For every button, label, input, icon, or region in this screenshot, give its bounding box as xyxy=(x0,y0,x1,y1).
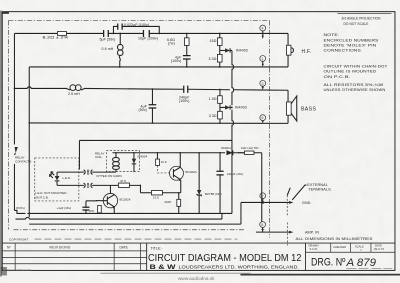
svg-text:ALL RESISTORS 5%-¼W: ALL RESISTORS 5%-¼W xyxy=(323,83,383,87)
resistor 12K xyxy=(140,191,180,200)
svg-text:47 K: 47 K xyxy=(120,179,126,183)
series capacitor 240uF xyxy=(179,86,190,104)
svg-text:OUTLINE IS MOUNTED: OUTLINE IS MOUNTED xyxy=(323,70,376,74)
wire input rail lower xyxy=(13,164,15,211)
svg-text:EXTERNAL: EXTERNAL xyxy=(307,183,328,187)
relay contacts label xyxy=(15,155,31,163)
svg-text:BASS: BASS xyxy=(301,106,317,112)
svg-text:7: 7 xyxy=(261,194,263,198)
svg-text:CIRCUIT DIAGRAM - MODEL DM 12: CIRCUIT DIAGRAM - MODEL DM 12 xyxy=(148,253,302,264)
svg-text:(100v): (100v) xyxy=(179,99,190,103)
svg-text:3.3Ω: 3.3Ω xyxy=(209,57,217,61)
svg-text:IN4003: IN4003 xyxy=(235,106,247,110)
bottom wires xyxy=(15,123,241,224)
resistor 220K xyxy=(164,193,180,214)
svg-text:100μF (16v): 100μF (16v) xyxy=(227,172,243,176)
svg-text:S.C.M.: S.C.M. xyxy=(309,247,317,251)
svg-text:10Ω (1w) 5%: 10Ω (1w) 5% xyxy=(241,146,259,150)
svg-text:L.E.D.: L.E.D. xyxy=(62,176,71,180)
svg-text:1K8: 1K8 xyxy=(88,209,94,213)
svg-text:BC182A: BC182A xyxy=(185,170,196,174)
svg-text:BC182A: BC182A xyxy=(119,197,130,201)
svg-text:CONNECTIONS.: CONNECTIONS. xyxy=(323,49,362,53)
wire input rail left vertical xyxy=(13,33,15,144)
svg-text:IN4004: IN4004 xyxy=(221,146,231,150)
resistor 47K xyxy=(118,179,140,193)
zener diode xyxy=(197,153,222,214)
svg-text:CIRCUIT WITHIN CHAIN-DOT: CIRCUIT WITHIN CHAIN-DOT xyxy=(323,65,388,69)
svg-text:(8 Pin): (8 Pin) xyxy=(16,206,25,210)
svg-text:A 879: A 879 xyxy=(345,257,376,269)
svg-text:2.5 mH: 2.5 mH xyxy=(68,92,80,96)
capacitor 10uF xyxy=(138,30,158,41)
svg-text:4: 4 xyxy=(261,27,263,31)
resistor 1K8 xyxy=(88,205,101,213)
svg-text:LOUDSPEAKERS LTD. WORTHING, EN: LOUDSPEAKERS LTD. WORTHING, ENGLAND. xyxy=(178,265,299,270)
svg-text:TITLE:-: TITLE:- xyxy=(150,246,163,250)
LED xyxy=(50,172,71,186)
HF L-pad resistor 15 ohm xyxy=(210,33,222,66)
resistor 10 ohm 1w xyxy=(241,146,259,154)
svg-text:8: 8 xyxy=(261,223,263,227)
svg-text:DO NOT SCALE: DO NOT SCALE xyxy=(343,22,369,26)
svg-text:COIL.: COIL. xyxy=(95,155,103,159)
shunt branch 6.8 ohm + 4uF xyxy=(167,33,190,66)
svg-text:(100v): (100v) xyxy=(171,59,182,63)
svg-text:www.audiodna.sk: www.audiodna.sk xyxy=(178,276,215,281)
bass speaker xyxy=(287,90,317,123)
svg-text:6: 6 xyxy=(261,116,263,120)
svg-text:DRG. Nº: DRG. Nº xyxy=(311,257,346,269)
bass sense diode IN4003 xyxy=(220,105,247,109)
svg-text:IN4004: IN4004 xyxy=(137,155,147,159)
riser to amp pin xyxy=(261,153,263,222)
LED wires with connectors xyxy=(57,170,123,188)
bass feed wire xyxy=(14,87,288,90)
relay diode IN4004 xyxy=(132,153,148,172)
svg-text:DRAWN: DRAWN xyxy=(308,244,318,248)
svg-text:12 K: 12 K xyxy=(153,195,159,199)
svg-text:NOTE.: NOTE. xyxy=(323,33,339,37)
HF pin circle top xyxy=(260,25,266,39)
external terminals leader xyxy=(292,183,332,200)
bass L-pad resistor 3.3 ohm xyxy=(209,111,222,119)
svg-text:+1μF (16v): +1μF (16v) xyxy=(56,206,71,210)
LED note text xyxy=(35,191,67,200)
svg-text:DATE: DATE xyxy=(119,245,127,249)
drawing number block xyxy=(308,244,392,269)
revisions table text xyxy=(7,245,128,249)
GND pin circle xyxy=(260,193,266,204)
HF sense diode IN4003 xyxy=(220,48,248,52)
svg-text:(50v): (50v) xyxy=(138,108,146,112)
svg-text:3: 3 xyxy=(261,82,263,86)
svg-text:C. B&W LOUDSPEAKERS: C. B&W LOUDSPEAKERS xyxy=(3,269,31,272)
svg-text:(7w): (7w) xyxy=(168,42,175,46)
capacitor 5uF xyxy=(99,30,115,42)
svg-text:0.022μF (100v): 0.022μF (100v) xyxy=(124,23,149,27)
connector jog (8 pin) xyxy=(14,210,25,213)
svg-text:1: 1 xyxy=(261,57,263,61)
AMP IN pin circle xyxy=(260,222,266,232)
shunt capacitor 4uF bass xyxy=(138,89,156,123)
svg-text:SCALE: SCALE xyxy=(355,244,364,248)
HF return drop to common xyxy=(28,67,30,123)
bass return wire xyxy=(29,122,288,124)
inductor 0.6mH xyxy=(101,33,123,66)
svg-text:10μF (200v): 10μF (200v) xyxy=(138,37,158,41)
supply rail wire y152 xyxy=(112,152,261,154)
svg-text:CHECKED: CHECKED xyxy=(333,245,346,249)
sense line vertical with hops xyxy=(232,50,234,140)
svg-text:3rd ANGLE PROJECTION: 3rd ANGLE PROJECTION xyxy=(341,17,380,21)
svg-text:GND.: GND. xyxy=(302,201,312,205)
wire top HF rail xyxy=(14,32,288,34)
svg-text:BZY88 (16v): BZY88 (16v) xyxy=(205,192,222,196)
AMP IN wire xyxy=(256,231,319,235)
PCB chain-dot outline xyxy=(8,20,269,237)
HF return wire xyxy=(29,66,288,68)
capacitor 100uF xyxy=(216,153,243,214)
svg-text:DENOTE ‘MOLEX’ PIN: DENOTE ‘MOLEX’ PIN xyxy=(323,44,376,48)
bypass branch 0.022uF xyxy=(113,23,159,34)
svg-text:8.2Ω ± 2%: 8.2Ω ± 2% xyxy=(42,36,68,40)
protection board box xyxy=(27,140,232,213)
bass pin circle bottom xyxy=(260,115,266,124)
svg-text:10 K: 10 K xyxy=(161,160,167,164)
svg-text:ON P.C.B.: ON P.C.B. xyxy=(323,75,350,79)
bass pin circle top xyxy=(260,80,266,89)
svg-text:UNLESS OTHERWISE SHOWN: UNLESS OTHERWISE SHOWN xyxy=(323,88,385,92)
HF tweeter xyxy=(286,33,311,66)
svg-text:FITTED ON CARD.: FITTED ON CARD. xyxy=(96,174,122,178)
svg-text:TERMINALS.: TERMINALS. xyxy=(308,188,332,192)
svg-text:B & W: B & W xyxy=(149,264,176,271)
resistor 8.2 ohm 2% xyxy=(42,32,68,40)
svg-text:15Ω: 15Ω xyxy=(210,39,217,43)
title block frame xyxy=(2,243,395,270)
copyright dashed line xyxy=(9,237,238,241)
transistor Q2 BC182A xyxy=(169,153,196,193)
note block xyxy=(323,33,388,92)
relay contact switch xyxy=(14,147,17,155)
GND wire xyxy=(241,201,312,205)
svg-text:L.E.D. NOT MOUNTED: L.E.D. NOT MOUNTED xyxy=(35,191,67,195)
svg-text:REVISIONS: REVISIONS xyxy=(49,246,71,250)
HF pin circle bottom xyxy=(260,56,266,67)
HF L-pad resistor 3.3 ohm xyxy=(209,54,222,62)
svg-text:220K: 220K xyxy=(164,200,171,204)
svg-text:COPYRIGHT: COPYRIGHT xyxy=(9,237,29,241)
svg-text:ENCIRCLED NUMBERS: ENCIRCLED NUMBERS xyxy=(323,38,378,42)
relay coil xyxy=(95,152,119,173)
svg-text:0.6 mH: 0.6 mH xyxy=(101,47,113,51)
resistor 10K xyxy=(156,153,171,173)
supply diode IN4004 xyxy=(221,146,245,155)
svg-text:ALL DIMENSIONS IN MILLIMETR: ALL DIMENSIONS IN MILLIMETRES xyxy=(295,237,373,241)
top-right projection notes xyxy=(341,17,380,27)
svg-text:29-3-73: 29-3-73 xyxy=(374,247,384,251)
inductor 2.5mH xyxy=(66,85,84,97)
transistor Q1 BC182A xyxy=(96,185,130,213)
LED dashed box xyxy=(35,158,79,201)
bass L-pad resistor 1.5 ohm xyxy=(209,89,222,123)
svg-text:1.5Ω: 1.5Ω xyxy=(209,97,217,101)
svg-text:IN4003: IN4003 xyxy=(236,49,248,53)
svg-text:AMP. IN: AMP. IN xyxy=(305,231,319,235)
svg-text:5μF (50v): 5μF (50v) xyxy=(99,38,115,42)
svg-text:3.3Ω: 3.3Ω xyxy=(209,114,217,118)
external switch dashes xyxy=(287,188,290,246)
svg-text:ON P.C.B.: ON P.C.B. xyxy=(35,196,49,200)
capacitor 1uF 16v xyxy=(56,201,96,214)
relay box dashed xyxy=(106,151,139,172)
svg-text:H.F.: H.F. xyxy=(301,49,311,55)
title text xyxy=(148,246,302,271)
